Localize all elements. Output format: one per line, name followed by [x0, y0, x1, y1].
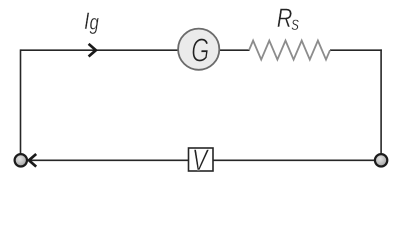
resistor Rs zigzag	[249, 41, 330, 60]
galvanometer G (meter circle)	[178, 29, 219, 70]
wire bottom-right horizontal	[213, 159, 375, 161]
svg-text:G: G	[191, 32, 209, 69]
wire top-left horizontal	[21, 49, 179, 51]
voltmeter V box	[189, 148, 214, 171]
wire top-right horizontal (between resistor and right corner)	[330, 49, 382, 51]
terminal dot left	[15, 154, 27, 166]
svg-text:V: V	[192, 143, 209, 176]
svg-text:Ig: Ig	[84, 7, 99, 35]
arrow toward left terminal (pointing left on bottom wire)	[29, 154, 36, 167]
arrow current Ig (pointing right on top wire)	[89, 44, 96, 57]
wire bottom-left horizontal	[29, 159, 189, 161]
terminal dot right	[375, 154, 387, 166]
svg-text:Rs: Rs	[277, 4, 300, 35]
wire between galvanometer and resistor	[219, 49, 250, 51]
wire right vertical	[380, 49, 382, 153]
wire left vertical	[20, 49, 22, 153]
